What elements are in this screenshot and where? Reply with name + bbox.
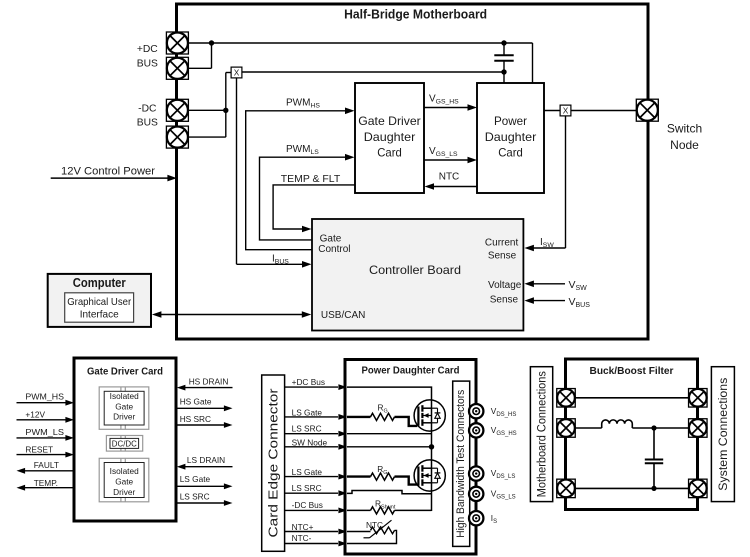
motherboard connections box xyxy=(530,367,552,502)
svg-text:Sense: Sense xyxy=(490,295,519,306)
svg-text:LS Gate: LS Gate xyxy=(292,467,323,477)
label Switch Node xyxy=(667,121,702,152)
wire -DC bus from P3/P4 through current sensor X1 xyxy=(188,72,504,137)
svg-text:Computer: Computer xyxy=(73,275,126,290)
svg-text:NTC: NTC xyxy=(366,520,383,530)
card edge signal LS Gate xyxy=(285,407,347,420)
filter capacitor C2 xyxy=(645,428,663,488)
NTC thermistor xyxy=(347,520,397,543)
power daughter card (detail) box xyxy=(345,360,476,555)
wire PWM_LS controller to gate driver xyxy=(260,154,355,240)
svg-text:Node: Node xyxy=(670,138,699,152)
current sensor X1 bus current xyxy=(231,67,242,78)
connector P5 switch node xyxy=(636,99,658,121)
svg-text:Gate: Gate xyxy=(115,402,133,412)
svg-text:Interface: Interface xyxy=(80,308,119,320)
svg-text:NTC: NTC xyxy=(439,171,460,182)
power daughter card box xyxy=(477,83,544,193)
svg-text:Gate Driver: Gate Driver xyxy=(358,115,421,128)
signal TEMP. xyxy=(17,478,75,491)
svg-text:USB/CAN: USB/CAN xyxy=(321,310,365,321)
filter inductor L1 and middle wire xyxy=(575,420,688,428)
computer box xyxy=(48,274,151,327)
svg-text:Voltage: Voltage xyxy=(488,280,522,291)
junction dot filter bottom xyxy=(651,486,656,491)
filter connector 1 xyxy=(557,389,576,408)
isolated gate driver U1 xyxy=(99,387,149,429)
label +DC BUS xyxy=(137,44,159,69)
signal LS SRC xyxy=(176,491,233,506)
current sensor X2 switch current xyxy=(560,105,571,116)
svg-text:Control: Control xyxy=(318,244,350,255)
gate driver card box xyxy=(74,358,176,521)
connector P4 -DC xyxy=(166,126,188,148)
card edge signal LS Gate xyxy=(285,467,347,480)
connector P2 +DC xyxy=(166,57,188,79)
card edge signal SW Node xyxy=(285,438,347,450)
svg-text:LS SRC: LS SRC xyxy=(180,491,210,501)
wire USB/CAN bidirectional to computer xyxy=(152,311,311,318)
SW node wire xyxy=(347,423,434,469)
svg-text:RESET: RESET xyxy=(25,444,53,454)
gate wire to Q2 xyxy=(395,477,418,485)
signal +12V xyxy=(17,409,75,422)
svg-text:LS Gate: LS Gate xyxy=(180,474,211,484)
wire PWM_HS controller to gate driver xyxy=(246,108,355,250)
wire I_SW sensor X2 to controller current sense xyxy=(524,116,565,251)
signal HS DRAIN xyxy=(177,377,233,391)
svg-text:System Connections: System Connections xyxy=(716,378,730,491)
wire NTC power card to gate driver xyxy=(425,183,478,190)
svg-text:Card: Card xyxy=(498,147,523,160)
card edge connector xyxy=(262,375,285,551)
signal LS DRAIN xyxy=(177,455,233,469)
wire V_BUS into controller xyxy=(524,297,565,304)
high bandwidth test connectors box xyxy=(453,381,470,546)
svg-text:LS SRC: LS SRC xyxy=(292,483,322,493)
test connector V_DS_LS xyxy=(469,466,515,480)
svg-text:LS DRAIN: LS DRAIN xyxy=(187,455,225,465)
svg-text:-DC: -DC xyxy=(138,104,157,115)
svg-text:LS Gate: LS Gate xyxy=(292,407,323,417)
filter top wire xyxy=(575,397,688,399)
svg-text:Power Daughter Card: Power Daughter Card xyxy=(362,366,460,377)
filter bottom wire xyxy=(575,487,688,489)
svg-text:HS SRC: HS SRC xyxy=(180,414,211,424)
system connections box xyxy=(711,367,734,502)
svg-text:X: X xyxy=(563,106,569,116)
svg-text:Card: Card xyxy=(377,147,402,160)
svg-text:PWM_HS: PWM_HS xyxy=(25,391,64,401)
wire TEMP & FLT gate driver to controller xyxy=(273,185,355,232)
motherboard outer box xyxy=(177,4,649,339)
svg-text:Gate: Gate xyxy=(115,476,133,486)
filter connector 3 xyxy=(557,479,576,498)
shunt resistor RShunt xyxy=(347,483,432,514)
signal RESET xyxy=(17,444,75,457)
svg-text:TEMP & FLT: TEMP & FLT xyxy=(281,174,341,185)
card edge signal +DC Bus xyxy=(285,377,347,390)
svg-text:Driver: Driver xyxy=(113,412,135,422)
gate driver daughter card box xyxy=(355,83,424,193)
wire +DC bus from P1 to capacitor and power card xyxy=(188,43,533,84)
test connector V_GS_HS xyxy=(469,423,517,437)
svg-text:-DC Bus: -DC Bus xyxy=(292,500,323,510)
svg-text:Gate Driver Card: Gate Driver Card xyxy=(87,366,163,377)
svg-text:Sense: Sense xyxy=(488,250,517,261)
connector P1 +DC xyxy=(166,32,188,54)
buck/boost filter box xyxy=(566,359,698,510)
junction dot +DC xyxy=(209,40,214,45)
LS SRC kelvin wire (HS) xyxy=(347,433,432,435)
svg-text:Controller Board: Controller Board xyxy=(369,264,461,277)
svg-text:+DC: +DC xyxy=(137,44,158,55)
svg-text:Isolated: Isolated xyxy=(110,391,139,401)
signal HS Gate xyxy=(176,397,233,412)
svg-text:PWM_LS: PWM_LS xyxy=(25,427,64,437)
filter connector 5 xyxy=(689,419,708,438)
card edge signal LS SRC xyxy=(285,423,347,436)
svg-text:Isolated: Isolated xyxy=(110,466,139,476)
svg-text:HS DRAIN: HS DRAIN xyxy=(189,377,229,387)
svg-text:Half-Bridge Motherboard: Half-Bridge Motherboard xyxy=(344,8,487,22)
svg-text:FAULT: FAULT xyxy=(34,460,59,470)
junction dot filter mid xyxy=(651,425,656,430)
junction dot -DC xyxy=(223,108,228,113)
card edge signal NTC+ xyxy=(285,522,347,535)
MOSFET Q1 high side xyxy=(414,400,445,431)
svg-text:Graphical User: Graphical User xyxy=(67,296,131,308)
svg-text:Daughter: Daughter xyxy=(364,131,416,144)
svg-text:BUS: BUS xyxy=(137,58,158,69)
test connector I_S xyxy=(469,511,497,525)
wire I_BUS sensor X1 to controller xyxy=(237,78,312,268)
LS SRC kelvin jog wire (LS) xyxy=(347,491,432,494)
svg-text:X: X xyxy=(234,68,240,78)
card edge signal -DC Bus xyxy=(285,500,347,513)
svg-text:TEMP.: TEMP. xyxy=(34,478,58,488)
svg-text:12V Control Power: 12V Control Power xyxy=(61,166,155,178)
svg-text:Driver: Driver xyxy=(113,487,135,497)
gate resistor RG (LS) xyxy=(347,473,395,480)
MOSFET Q2 low side xyxy=(414,460,445,491)
gate resistor RG (HS) xyxy=(347,413,395,420)
svg-text:DC/DC: DC/DC xyxy=(112,438,137,448)
connector P3 -DC xyxy=(166,99,188,121)
svg-text:HS Gate: HS Gate xyxy=(180,397,212,407)
signal LS Gate xyxy=(176,474,233,489)
filter connector 4 xyxy=(689,389,708,408)
junction dot cap top xyxy=(501,40,506,45)
graphical user interface box xyxy=(65,293,134,322)
filter connector 6 xyxy=(689,479,708,498)
gate wire to Q1 xyxy=(395,417,418,426)
test connector V_DS_HS xyxy=(469,404,516,418)
card edge signal NTC- xyxy=(285,533,347,546)
svg-text:Buck/Boost Filter: Buck/Boost Filter xyxy=(590,366,674,377)
signal PWM_LS xyxy=(17,427,75,441)
svg-text:+12V: +12V xyxy=(25,409,45,419)
DC/DC converter xyxy=(106,436,142,452)
svg-text:+DC Bus: +DC Bus xyxy=(292,377,325,387)
svg-text:Motherboard Connections: Motherboard Connections xyxy=(535,371,549,497)
svg-text:SW Node: SW Node xyxy=(292,438,328,448)
svg-text:Card Edge Connector: Card Edge Connector xyxy=(266,388,281,538)
signal FAULT xyxy=(17,460,75,474)
svg-text:Daughter: Daughter xyxy=(485,131,537,144)
card edge signal LS SRC xyxy=(285,483,347,496)
svg-text:High Bandwidth Test Connectors: High Bandwidth Test Connectors xyxy=(455,390,467,538)
test connector V_GS_LS xyxy=(469,487,516,501)
+DC bus wire to Q1 drain xyxy=(347,387,432,408)
isolated gate driver U2 xyxy=(99,458,149,502)
svg-text:LS SRC: LS SRC xyxy=(292,423,322,433)
12V control power arrow xyxy=(51,166,177,182)
wire switch node xyxy=(544,110,636,112)
wire V_GS_HS gate driver to power card xyxy=(424,104,477,111)
svg-text:Current: Current xyxy=(485,238,519,249)
label -DC BUS xyxy=(137,104,158,129)
filter connector 2 xyxy=(557,419,576,438)
svg-text:BUS: BUS xyxy=(137,118,158,129)
svg-text:NTC-: NTC- xyxy=(292,533,312,543)
svg-text:Power: Power xyxy=(494,115,527,128)
DC bus capacitor xyxy=(494,43,513,72)
wire V_GS_LS gate driver to power card xyxy=(424,157,477,164)
svg-text:Switch: Switch xyxy=(667,121,702,135)
svg-text:Gate: Gate xyxy=(320,233,342,244)
wire V_SW into controller xyxy=(524,281,565,288)
signal HS SRC xyxy=(176,414,233,428)
controller board box xyxy=(312,219,523,331)
junction dot cap bottom xyxy=(501,69,506,74)
svg-text:NTC+: NTC+ xyxy=(292,522,314,532)
signal PWM_HS xyxy=(17,391,75,405)
